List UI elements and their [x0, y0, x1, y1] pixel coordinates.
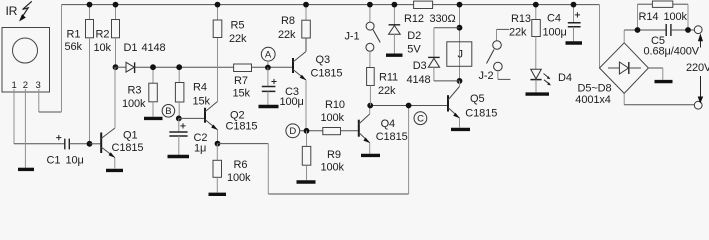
ground (C3): [259, 105, 279, 108]
ground (R9): [297, 180, 316, 183]
svg-text:100μ: 100μ: [280, 96, 304, 108]
transistor Q1: [90, 128, 116, 168]
wire collector bus to Q5 base: [370, 105, 447, 107]
svg-text:C1815: C1815: [112, 142, 144, 154]
svg-text:R11: R11: [379, 72, 398, 84]
wire pin2 to ground: [24, 89, 26, 168]
svg-text:R4: R4: [193, 82, 207, 94]
node B: [162, 105, 175, 118]
node dot Q2 emitter: [215, 141, 221, 147]
ground (C2): [168, 155, 190, 158]
node dot C junction: [406, 103, 412, 109]
bridge rectifier D5~D8: [575, 43, 648, 106]
wire rail to bridge left: [599, 5, 601, 68]
lightning arrow: [19, 1, 32, 21]
svg-text:3: 3: [36, 80, 41, 91]
wire B to Q2 base: [179, 117, 205, 119]
svg-text:R10: R10: [325, 99, 345, 111]
svg-text:C1815: C1815: [376, 131, 408, 143]
svg-text:R8: R8: [281, 15, 295, 27]
resistor R11: [367, 68, 398, 106]
svg-text:C4: C4: [547, 13, 561, 25]
resistor R6: [213, 144, 251, 193]
node dot R4 top: [176, 64, 182, 70]
transistor Q3: [293, 38, 306, 80]
svg-text:5V: 5V: [407, 44, 421, 56]
capacitor C3: [262, 68, 304, 109]
svg-text:R1: R1: [67, 28, 81, 40]
node dot R1/C1/Q1: [87, 141, 93, 147]
resistor R5: [213, 5, 247, 45]
switch J-2: [479, 29, 511, 82]
wire pin1 to C1: [13, 89, 15, 144]
svg-text:4148: 4148: [407, 74, 431, 86]
relay J coil: [447, 5, 472, 81]
svg-text:R3: R3: [128, 85, 142, 97]
node dot R3 top: [150, 64, 156, 70]
node dot R5 top: [215, 2, 221, 8]
ground (Q5 emitter): [451, 128, 470, 131]
svg-text:R6: R6: [234, 159, 248, 171]
resistor R14: [638, 1, 689, 30]
220V label: [686, 62, 709, 74]
ground (Q1 emitter): [106, 169, 123, 172]
svg-text:C1: C1: [47, 155, 61, 167]
svg-text:330Ω: 330Ω: [430, 13, 456, 25]
svg-text:1μ: 1μ: [194, 143, 206, 155]
svg-text:22k: 22k: [278, 29, 296, 41]
resistor R8: [278, 5, 310, 52]
resistor R3: [122, 67, 157, 116]
terminal 220V top: [694, 26, 703, 48]
node C: [414, 112, 427, 125]
svg-text:D3: D3: [413, 60, 427, 72]
ground (R3): [144, 117, 163, 120]
transistor Q5: [448, 81, 497, 128]
svg-text:10μ: 10μ: [66, 155, 84, 167]
wire bridge bottom to terminal: [623, 93, 625, 104]
node dot C4 top: [571, 2, 577, 8]
ground (D4): [526, 92, 550, 95]
resistor R1: [65, 5, 94, 144]
wire bridge right to ground: [648, 67, 662, 69]
svg-text:C1815: C1815: [465, 108, 497, 120]
svg-text:Q4: Q4: [381, 118, 395, 130]
node dot R2 top: [113, 2, 119, 8]
svg-text:IR: IR: [6, 4, 18, 18]
node dot D2 top: [392, 2, 398, 8]
svg-text:4001x4: 4001x4: [575, 94, 611, 106]
diode D1: [116, 42, 166, 73]
diode D3: [407, 28, 460, 86]
capacitor C2: [169, 118, 207, 154]
svg-text:0.68μ/400V: 0.68μ/400V: [644, 46, 700, 58]
wire D to R10: [300, 130, 323, 132]
svg-text:J: J: [458, 49, 463, 61]
wire C1 to node: [69, 143, 89, 145]
node dot R8 top: [303, 2, 309, 8]
node dot R1 top: [87, 2, 93, 8]
svg-text:100k: 100k: [227, 172, 251, 184]
node D: [286, 124, 300, 138]
svg-text:100k: 100k: [321, 112, 345, 124]
resistor R9: [302, 131, 344, 180]
zener D2: [389, 5, 422, 56]
ground (D2): [386, 54, 403, 57]
transistor Q2: [205, 102, 218, 144]
node dot Q4 collector: [367, 103, 373, 109]
node dot B junction: [176, 116, 182, 122]
svg-text:56k: 56k: [65, 41, 83, 53]
svg-text:22k: 22k: [378, 85, 396, 97]
svg-text:J-1: J-1: [345, 31, 360, 43]
svg-text:A: A: [265, 50, 272, 61]
transistor Q4: [359, 106, 408, 154]
svg-text:100k: 100k: [321, 161, 345, 173]
node A: [261, 47, 275, 67]
svg-text:R5: R5: [231, 20, 245, 32]
svg-text:D: D: [289, 126, 296, 137]
svg-text:10k: 10k: [94, 42, 112, 54]
node dot C5 right: [685, 27, 691, 33]
node dot J-1 top: [367, 2, 373, 8]
svg-text:22k: 22k: [229, 33, 247, 45]
capacitor C5: [644, 24, 700, 58]
svg-text:D1: D1: [124, 42, 138, 54]
LED D4: [530, 69, 571, 92]
node dot D junction: [304, 128, 310, 134]
wire top rail: [62, 4, 600, 6]
svg-text:D5~D8: D5~D8: [578, 83, 612, 95]
node dot C5 left: [635, 27, 641, 33]
svg-text:C1815: C1815: [226, 121, 258, 133]
svg-text:C1815: C1815: [311, 68, 343, 80]
svg-text:R12: R12: [404, 13, 424, 25]
node dot relay top rail: [457, 2, 463, 8]
ground (Q4 emitter): [361, 154, 380, 157]
resistor R2: [94, 5, 120, 68]
svg-text:R7: R7: [234, 75, 248, 87]
svg-text:15k: 15k: [233, 88, 251, 100]
svg-text:Q5: Q5: [470, 93, 484, 105]
svg-text:D4: D4: [558, 72, 572, 84]
wire D1 out bus: [135, 66, 234, 68]
node dot R2/D1/Q1C: [113, 64, 119, 70]
terminal 220V bottom: [694, 76, 703, 109]
wire bridge top to C5 node: [623, 30, 625, 43]
resistor R4: [175, 67, 210, 118]
svg-text:D2: D2: [407, 30, 421, 42]
svg-text:R9: R9: [327, 149, 341, 161]
svg-text:Q3: Q3: [316, 54, 330, 66]
svg-text:4148: 4148: [142, 42, 166, 54]
svg-text:100k: 100k: [664, 11, 688, 23]
ground (R6): [209, 193, 227, 196]
svg-text:22k: 22k: [509, 26, 527, 38]
node dot R13 top: [533, 2, 539, 8]
node dot A junction: [265, 65, 271, 71]
resistor R7: [233, 64, 293, 100]
capacitor C1: [47, 135, 84, 167]
resistor R13: [509, 5, 540, 69]
svg-text:15k: 15k: [193, 95, 211, 107]
svg-text:R14: R14: [639, 11, 659, 23]
svg-text:220V: 220V: [686, 62, 709, 74]
capacitor C4: [543, 5, 581, 42]
IR receiver module box: [2, 28, 50, 93]
svg-text:C: C: [417, 114, 424, 125]
svg-text:Q1: Q1: [123, 130, 137, 142]
svg-text:J-2: J-2: [479, 70, 494, 82]
IR label: [6, 4, 18, 18]
resistor R12: [404, 1, 456, 25]
node dot relay/D3 bottom: [457, 78, 463, 84]
wire pin3 to top rail riser: [38, 89, 40, 112]
ground (C4): [566, 41, 583, 44]
switch J-1: [345, 5, 381, 68]
svg-text:R13: R13: [511, 13, 531, 25]
ground (bridge DC minus): [655, 80, 673, 83]
svg-text:100k: 100k: [122, 98, 146, 110]
node dot relay/D3 top: [457, 25, 463, 31]
svg-text:R2: R2: [96, 28, 110, 40]
svg-text:100μ: 100μ: [543, 27, 567, 39]
ground (pin2): [18, 168, 34, 171]
wire Q2 emitter to node C (bottom run): [218, 143, 269, 145]
svg-text:B: B: [165, 106, 171, 117]
resistor R10: [321, 99, 358, 135]
